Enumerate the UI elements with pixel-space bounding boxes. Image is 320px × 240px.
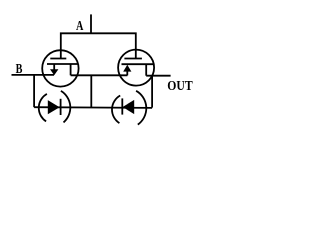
wire bottom rail through D1 and D2 xyxy=(34,106,152,109)
diode D2 cathode bar xyxy=(121,98,123,114)
diode D1 envelope arcs xyxy=(39,91,71,123)
wire middle Q1 to Q2 xyxy=(71,74,128,76)
diode D1 cathode bar xyxy=(60,99,62,115)
wire tap from B down to D1 anode xyxy=(33,75,35,107)
wire top rail joining drains of Q1 and Q2 xyxy=(61,33,136,58)
wire riser from bottom rail up to OUT xyxy=(151,76,153,108)
diode D1 triangle (anode, pointing right) xyxy=(48,100,60,114)
diode D2 envelope arcs xyxy=(112,91,146,125)
transistor Q2 (right, circle envelope with gate plate and channel bar) xyxy=(118,50,154,86)
transistor Q1 emitter arrow (pointing down) xyxy=(50,69,58,75)
transistor Q1 (left, circle envelope with gate plate and channel bar) xyxy=(42,50,78,86)
transistor Q2 emitter arrow (pointing up) xyxy=(123,65,131,72)
svg-text:A: A xyxy=(76,19,84,34)
diode D2 triangle (anode, pointing left) xyxy=(123,100,135,114)
wire Q2 to OUT xyxy=(146,75,170,77)
wire input stub from node A xyxy=(90,14,92,33)
wire drop from middle wire to bottom rail xyxy=(90,75,92,107)
svg-text:B: B xyxy=(16,62,23,77)
wire input B to Q1 xyxy=(12,74,55,76)
svg-text:OUT: OUT xyxy=(167,79,193,94)
